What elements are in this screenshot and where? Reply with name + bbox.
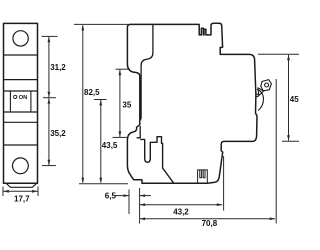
- svg-text:70,8: 70,8: [202, 219, 218, 228]
- svg-text:ON: ON: [19, 95, 28, 101]
- handle recess internal contour: [139, 25, 153, 121]
- terminal lever detail: [256, 80, 271, 111]
- dimension 6,5: [115, 188, 151, 224]
- svg-text:31,2: 31,2: [50, 63, 66, 72]
- dimension 31,2: [42, 36, 58, 97]
- dimension 17,7: [3, 187, 38, 197]
- bottom terminal circle: [13, 158, 29, 174]
- ON indicator circle: [14, 95, 17, 98]
- svg-text:82,5: 82,5: [84, 88, 100, 97]
- front view outline: [4, 23, 38, 183]
- svg-text:6,5: 6,5: [105, 192, 117, 201]
- DIN rail bottom castellation: [198, 170, 208, 183]
- svg-text:35: 35: [122, 100, 131, 109]
- clip front ledge: [137, 126, 141, 138]
- side view bottom edge mid segment: [142, 182, 207, 184]
- bottom clip bump: [6, 183, 37, 187]
- top terminal circle: [13, 31, 28, 46]
- svg-text:43,2: 43,2: [173, 207, 189, 216]
- dimension 35,2: [42, 98, 56, 166]
- front view dividers: [4, 55, 38, 145]
- svg-text:45: 45: [290, 95, 299, 104]
- DIN clip inner contour (rail slot): [140, 137, 174, 184]
- svg-text:35,2: 35,2: [50, 129, 66, 138]
- dimension 35: [113, 69, 131, 137]
- dimension 70,8: [140, 79, 277, 224]
- side view outer outline: [127, 23, 257, 183]
- dimension 43,2: [140, 156, 224, 211]
- dimension 82,5: [74, 24, 128, 183]
- dimension 43,5: [94, 100, 107, 183]
- svg-text:17,7: 17,7: [14, 195, 30, 204]
- dimension 45: [258, 54, 299, 141]
- switch rocker verticals: [10, 91, 31, 112]
- svg-text:43,5: 43,5: [102, 141, 118, 150]
